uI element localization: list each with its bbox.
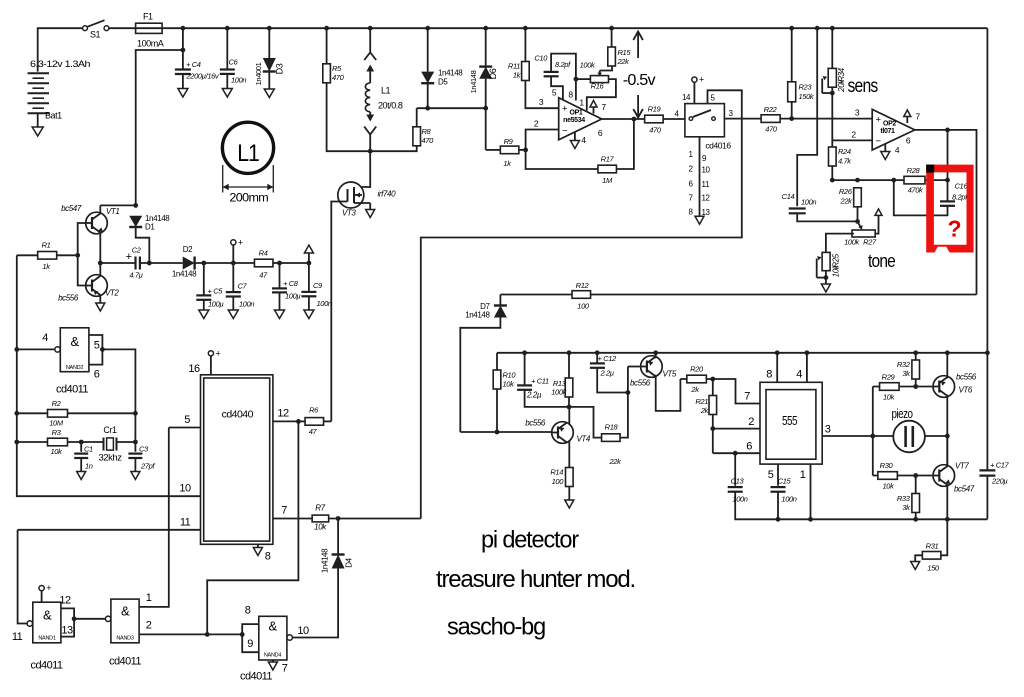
wire R30 left [873, 475, 878, 477]
wire R1 left [17, 254, 38, 256]
wire R6 node down [207, 421, 298, 634]
svg-text:555: 555 [782, 414, 798, 428]
power arrow above C9 [304, 245, 313, 263]
label 100mA [137, 39, 164, 50]
svg-text:+ C8: + C8 [283, 279, 299, 288]
svg-text:R22: R22 [764, 105, 778, 114]
svg-text:10: 10 [297, 625, 309, 637]
svg-text:L1: L1 [237, 140, 259, 167]
label R8 [422, 127, 432, 136]
label pin5 OP1 [552, 88, 557, 98]
label R14 100 [552, 477, 565, 486]
svg-text:R27: R27 [863, 238, 877, 247]
wire C11 top [524, 353, 526, 385]
svg-text:2200µ/16v: 2200µ/16v [186, 72, 220, 81]
wire VT3 drain [354, 151, 370, 187]
ground OP1 pin4 [570, 141, 579, 149]
svg-text:47: 47 [259, 271, 268, 280]
wire VT1 emitter / VT2 collector [99, 233, 101, 277]
annotation red frame [926, 165, 973, 253]
label piezo [892, 407, 914, 421]
svg-text:100n: 100n [732, 495, 747, 504]
label C13 100n [732, 495, 747, 504]
wire OP2 minus [832, 139, 872, 141]
junction rail R34 [830, 26, 835, 31]
wire D7 bottom path [460, 318, 500, 433]
wire right edge to C17 [986, 353, 988, 470]
label pin8 OP1 [568, 90, 573, 100]
svg-text:470: 470 [332, 73, 345, 82]
wire VT1 collector [99, 205, 101, 213]
trimmer R27 tone [852, 221, 875, 237]
resistor R7 [312, 515, 329, 522]
label 555 pin7 [744, 391, 750, 403]
capacitor C15 [771, 487, 786, 492]
label R2 10M [49, 419, 64, 428]
svg-text:+ C12: + C12 [598, 354, 618, 363]
wire D3 column [268, 28, 270, 58]
label VT6 [959, 386, 973, 395]
svg-text:D2: D2 [183, 245, 193, 254]
power terminal cd4016 pin14 [692, 75, 704, 85]
wire cd4040 pin16 stem [210, 356, 212, 375]
label F1 [143, 12, 153, 22]
label C9 [313, 281, 323, 290]
junction D1 top [133, 203, 138, 208]
label D7 1n4148 [465, 311, 490, 320]
svg-text:VT3: VT3 [342, 209, 356, 218]
label R14 [550, 468, 563, 477]
svg-text:22k: 22k [617, 57, 631, 66]
diode D3 1n4001 [263, 58, 276, 72]
junction NAND2 out [100, 347, 105, 352]
wire S1 to F1 [109, 27, 136, 29]
wire C7 power stem [232, 245, 234, 292]
svg-text:200mm: 200mm [229, 191, 268, 205]
svg-text:1n: 1n [85, 462, 93, 471]
svg-text:+ C5: + C5 [208, 287, 224, 296]
label cd4011 NAND2 [56, 384, 88, 396]
label D5 1n4148 [438, 69, 463, 78]
label R23 150k [799, 92, 815, 101]
wire R1 to bases [57, 254, 78, 256]
label R18 22k [609, 457, 623, 466]
svg-text:cd4011: cd4011 [56, 384, 88, 396]
svg-text:C7: C7 [238, 282, 248, 291]
label C17 220u [991, 477, 1007, 486]
label pin2 NAND3 [146, 620, 152, 632]
label pin2 OP2 [851, 130, 856, 140]
text sascho-bg [447, 614, 545, 641]
svg-text:470: 470 [422, 136, 435, 145]
power terminal above C7 [231, 237, 243, 247]
wire C11 bottom [525, 390, 569, 407]
label R19 470 [649, 126, 662, 135]
IC cd4040 [201, 375, 273, 545]
label C14 100n [801, 198, 816, 207]
label R29 10k [883, 393, 896, 402]
wire cd4016 centre divider [699, 137, 701, 216]
svg-text:10k: 10k [883, 393, 896, 402]
svg-text:100k: 100k [844, 238, 860, 247]
trimmer R25 [817, 252, 830, 277]
transistor VT4 bc556 [552, 422, 574, 444]
wire D6 to R9 [486, 149, 501, 151]
label R30 10k [883, 482, 896, 491]
label R13 100k [551, 388, 567, 397]
junction rail R15 [609, 26, 614, 31]
wire NAND1 power stem [41, 591, 43, 603]
junction C12 rail [595, 350, 600, 355]
junction R2 right [133, 411, 138, 416]
resistor R8 [413, 127, 421, 146]
wire C17 to gndwire [986, 476, 988, 520]
resistor R23 [788, 82, 796, 102]
junction rail D6 [483, 26, 488, 31]
wire R9 to node2 [519, 149, 526, 151]
capacitor C2 [136, 257, 140, 270]
resistor R6 [305, 418, 324, 426]
junction rail pin4 [805, 350, 810, 355]
junction R26 top [855, 178, 860, 183]
label R16 100k [580, 61, 596, 70]
wire NAND2 input [17, 348, 55, 350]
label C14 [782, 192, 795, 201]
junction left bus R3 [14, 440, 19, 445]
wire C8 column [279, 263, 281, 288]
wire R6 to VT3 gate [298, 420, 305, 422]
wire R12 to OP2 output [591, 294, 977, 296]
label C12 22u [600, 369, 614, 378]
junction rail R32 [913, 350, 918, 355]
diode D7 1n4148 [494, 306, 507, 318]
wire R8 top bend [416, 108, 418, 127]
junction R24 fb node [830, 178, 835, 183]
resistor R24 [829, 147, 837, 166]
label C10 [534, 54, 548, 63]
wire NAND2 out to R2R3 [102, 349, 135, 451]
junction R20 R21 [710, 377, 715, 382]
label R4 [259, 249, 268, 258]
wire D3 to ground [268, 72, 270, 90]
label D2 [183, 245, 193, 254]
svg-text:&: & [43, 608, 52, 623]
svg-text:R32: R32 [897, 360, 911, 369]
resistor R1 [38, 252, 57, 260]
label R26 22k [840, 197, 854, 206]
wire R22 to OP2 pin3 [780, 118, 872, 120]
junction C12 vt5base [626, 390, 631, 395]
wire C9 column [308, 263, 310, 292]
svg-text:6: 6 [598, 128, 603, 138]
label R12 [576, 281, 590, 290]
junction C1 [79, 440, 84, 445]
label VT7 [955, 462, 969, 471]
wire VT5 collector [656, 375, 681, 411]
junction VT6 emitter rail [945, 350, 950, 355]
wire D5 column top [427, 28, 429, 71]
svg-text:1n4148: 1n4148 [465, 311, 490, 320]
svg-text:5: 5 [184, 414, 190, 426]
svg-text:irf740: irf740 [378, 190, 397, 199]
svg-text:R30: R30 [880, 461, 894, 470]
label D6 [488, 68, 498, 79]
resistor R10 [493, 370, 501, 389]
wire 555 pin1 [810, 464, 812, 519]
svg-text:10k: 10k [314, 523, 327, 532]
label D4 1n4148 [321, 548, 330, 573]
svg-text:bc556: bc556 [58, 294, 79, 303]
diode D6 1n4148 [479, 67, 492, 79]
svg-text:+ C11: + C11 [531, 377, 549, 386]
label pin4 OP2 [895, 145, 900, 155]
wire detector rail [497, 352, 987, 354]
op-amp OP1 ne5534 [559, 98, 602, 140]
capacitor C9 [301, 292, 316, 296]
ground cd4040 pin8 [253, 548, 262, 556]
svg-text:C9: C9 [313, 281, 323, 290]
svg-text:22k: 22k [840, 197, 854, 206]
junction R25 wiper [824, 275, 829, 280]
wire left bus [17, 255, 201, 496]
resistor R19 [645, 115, 664, 123]
resistor R28 [904, 176, 925, 184]
label R32 [897, 360, 911, 369]
svg-text:9: 9 [247, 638, 253, 650]
ground R14 [565, 500, 574, 508]
label pin3 cd4016 [728, 109, 733, 118]
svg-text:7: 7 [915, 112, 920, 122]
svg-text:11: 11 [702, 180, 710, 189]
svg-text:Cr1: Cr1 [103, 425, 117, 435]
capacitor C1 [74, 454, 88, 458]
wire C15 bottom [777, 492, 779, 520]
wire R34 top [831, 28, 833, 68]
svg-text:C16: C16 [955, 182, 969, 191]
label C6 [229, 58, 239, 67]
svg-text:20k: 20k [837, 79, 846, 93]
resistor R17 [598, 165, 617, 173]
wire C6 column [226, 28, 228, 69]
resistor R31 [922, 552, 941, 560]
svg-text:tl071: tl071 [880, 128, 895, 135]
label pin10 NAND4 [297, 625, 309, 637]
svg-text:F1: F1 [143, 12, 153, 22]
label R3 10k [51, 447, 64, 456]
wire D5 row [417, 107, 486, 109]
junction rail D3 [267, 26, 272, 31]
svg-text:470k: 470k [908, 186, 924, 195]
label 32khz [99, 453, 123, 464]
transistor VT1 bc547 [86, 212, 108, 234]
junction L1 bottom [368, 149, 373, 154]
wire NAND1 tied pins [61, 608, 74, 636]
wire R29R30 column [872, 387, 874, 476]
svg-text:NAND2: NAND2 [66, 365, 83, 371]
wire node2 down to R17 [526, 150, 598, 169]
power arrow tone2 [0, 0, 1, 1]
svg-text:cd4011: cd4011 [109, 656, 141, 668]
wire R20 right [706, 378, 712, 380]
label C3 [139, 445, 149, 454]
label 555 pin5 [768, 469, 774, 481]
svg-text:piezo: piezo [892, 407, 914, 421]
label R31 150 [927, 564, 940, 573]
label VT7 bc547 [954, 485, 975, 494]
svg-text:Bat1: Bat1 [45, 111, 62, 121]
label pin7 OP2 [915, 112, 920, 122]
junction D6 bottom [483, 106, 488, 111]
label D1 [145, 223, 155, 232]
svg-text:VT5: VT5 [663, 370, 677, 379]
wire cd4016 pin5 bracket [421, 90, 742, 518]
annotation up arrow [633, 32, 643, 59]
label R7 [315, 504, 325, 513]
svg-text:16: 16 [188, 363, 200, 375]
svg-text:32khz: 32khz [99, 453, 123, 464]
label R9 [504, 137, 514, 146]
wire R21 bottom [712, 415, 714, 454]
wire VT2 emitter to ground [99, 295, 101, 302]
wire cd4040 pin8 stem [257, 544, 259, 547]
junction R7 D4 [336, 516, 341, 521]
label VT6 bc556 [956, 373, 977, 382]
label irf740 [378, 190, 397, 199]
label VT2 [105, 289, 119, 298]
capacitor C11 [517, 385, 532, 389]
svg-text:11: 11 [180, 517, 191, 529]
svg-text:VT2: VT2 [105, 289, 119, 298]
wire node to R18 [569, 407, 602, 438]
wire C14 bottom [797, 213, 857, 221]
wire bottom of flyback row [370, 146, 417, 151]
ground below C4 [178, 89, 188, 98]
svg-text:1: 1 [579, 98, 584, 108]
label R12 100 [577, 302, 590, 311]
junction rail c14col [815, 26, 820, 31]
resistor R12 [572, 291, 591, 299]
svg-text:3: 3 [825, 424, 831, 436]
svg-text:C1: C1 [84, 445, 93, 454]
annotation red question mark [948, 216, 961, 242]
label VT3 [342, 209, 356, 218]
label C6 100n [231, 76, 246, 85]
annotation black square [926, 165, 934, 173]
svg-text:8: 8 [766, 369, 772, 381]
label C12 [598, 354, 618, 363]
wire NAND4 gnd stem [272, 660, 274, 662]
wire R31 left [915, 555, 922, 561]
wire C12 bottom [597, 368, 628, 393]
wire D1 to C2 node [136, 227, 150, 263]
wire 555 pin6 [713, 452, 760, 454]
wire NAND2 tied pins [89, 335, 103, 365]
label R29 [882, 373, 896, 382]
wire R17 to output [616, 119, 634, 169]
junction left bus NAND2 [14, 347, 19, 352]
label ne5534 [563, 117, 585, 124]
junction C2 D1 [147, 261, 152, 266]
svg-text:+ C17: + C17 [990, 461, 1010, 470]
label R27 [863, 238, 877, 247]
wire R3 row [17, 441, 103, 443]
junction pin1 gndwire [808, 517, 813, 522]
power arrow tone [875, 209, 882, 216]
wire rail corner down right edge [986, 28, 988, 353]
svg-text:R25: R25 [832, 253, 841, 267]
label R13 [553, 379, 567, 388]
svg-text:10: 10 [179, 483, 191, 495]
resistor R29 [880, 383, 900, 391]
label C11 [531, 377, 549, 386]
label C11 22u [526, 391, 542, 400]
junction F1/C4 [181, 48, 186, 53]
label cd4040 pin11 [180, 517, 191, 529]
svg-text:14: 14 [682, 93, 691, 102]
wire top rail [162, 27, 987, 29]
wire C13 column [734, 453, 736, 486]
label D2 1n4148 [172, 270, 197, 279]
ground R31 [911, 562, 920, 570]
svg-text:R14: R14 [550, 468, 563, 477]
wire fb node row [832, 179, 904, 181]
label R5 [332, 64, 342, 73]
junction R33 base [913, 473, 918, 478]
label C5 [208, 287, 224, 296]
resistor R21 [709, 396, 717, 415]
ground OP2 pin4 [881, 152, 890, 160]
label pin12 NAND1 [59, 595, 71, 607]
label 555 pin3 [825, 424, 831, 436]
wire R14 bottom [568, 487, 570, 501]
wire output to C16 [947, 130, 949, 201]
junction R32 base [913, 384, 918, 389]
wire C10 top loop [551, 54, 576, 80]
svg-text:VT6: VT6 [959, 386, 973, 395]
crystal Cr1 [104, 438, 117, 451]
svg-text:100n: 100n [239, 300, 254, 309]
gate NAND1 [27, 602, 61, 643]
svg-text:R6: R6 [309, 406, 319, 415]
label VT5 [663, 370, 677, 379]
svg-text:C10: C10 [534, 54, 548, 63]
label cd4016 numbers right [702, 154, 711, 217]
transistor VT5 bc556 [641, 356, 663, 378]
wire NAND1 input col [18, 530, 27, 624]
junction R23 pin3wire [789, 116, 794, 121]
svg-text:C6: C6 [229, 58, 239, 67]
label D6 1n4148 [469, 70, 478, 93]
junction left bus R2 [14, 411, 19, 416]
label D4 [345, 557, 354, 567]
junction R6 left [296, 419, 301, 424]
junction C8 [277, 261, 282, 266]
svg-text:&: & [268, 619, 277, 634]
junction emitters C2 [98, 261, 103, 266]
label C4 [186, 60, 201, 69]
label 555 pin2 [748, 416, 754, 428]
label R22 470 [765, 125, 778, 134]
svg-text:bc547: bc547 [61, 204, 82, 213]
label pin8 NAND4 [245, 605, 251, 617]
label R18 [605, 423, 619, 432]
label pin6 OP2 [906, 136, 911, 146]
svg-text:8.2pf: 8.2pf [555, 60, 571, 69]
label C10 82pf [555, 60, 571, 69]
wire D2 to R4 [195, 262, 256, 264]
label C17 [990, 461, 1010, 470]
svg-text:R10: R10 [503, 371, 517, 380]
